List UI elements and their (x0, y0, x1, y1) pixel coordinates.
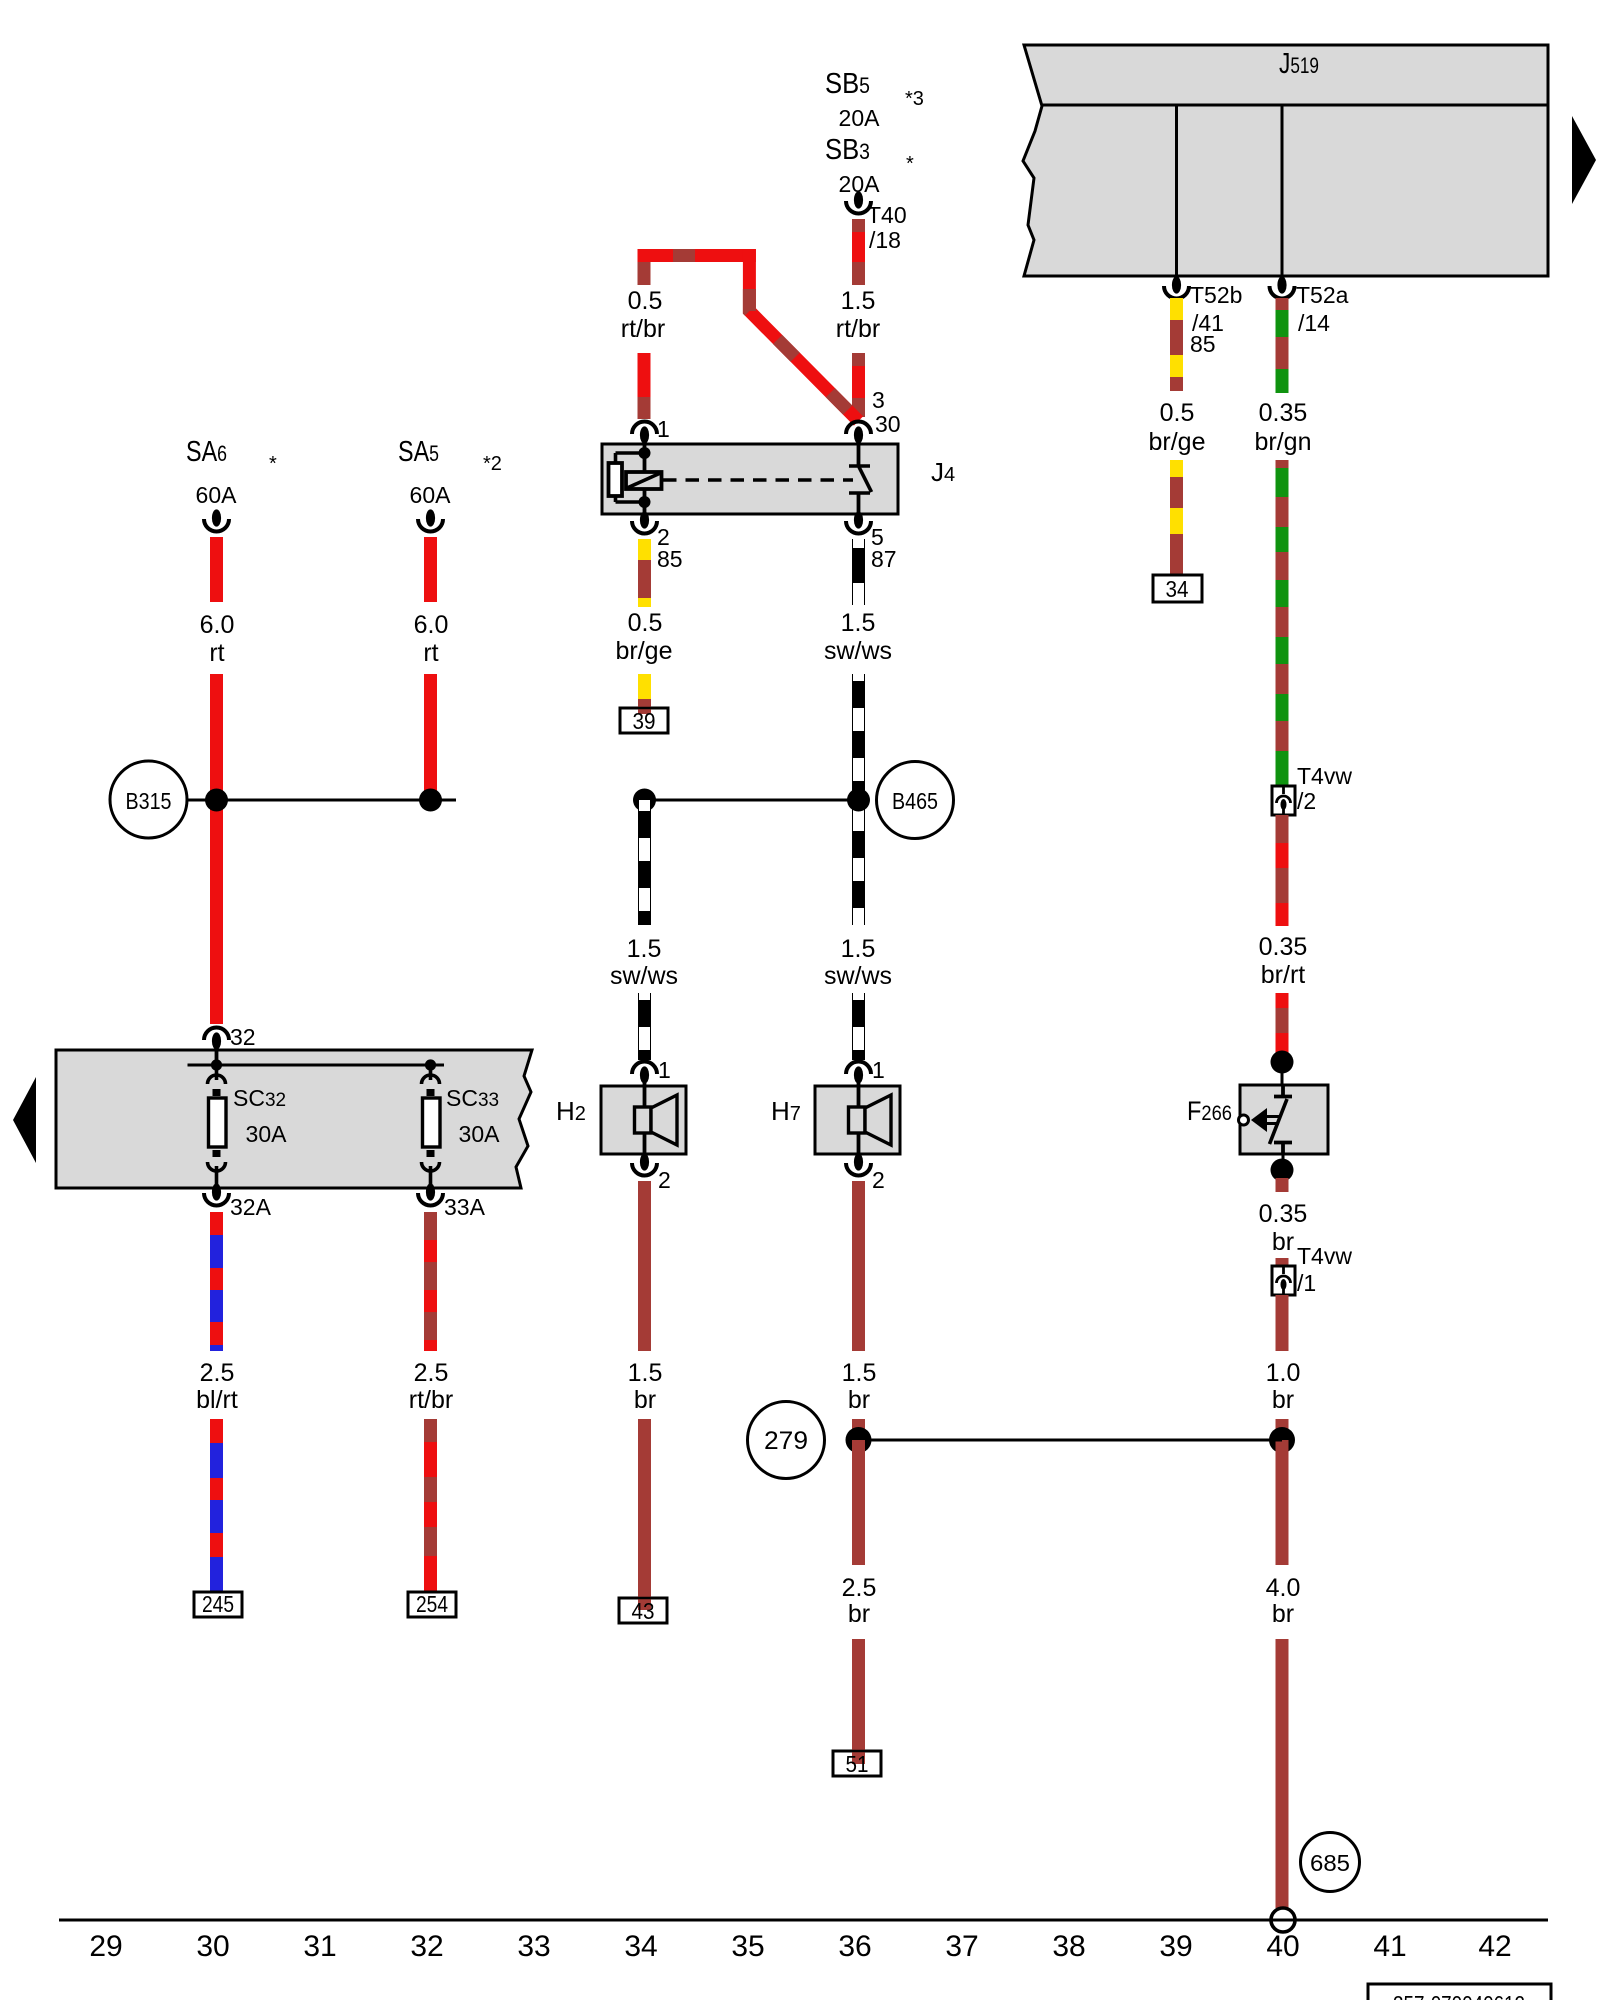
svg-text:SA6: SA6 (186, 436, 227, 468)
svg-text:85: 85 (657, 546, 683, 572)
J4 pin 2 connector (632, 511, 683, 572)
bus bar inside SC box (188, 1059, 445, 1070)
svg-text:30: 30 (196, 1930, 229, 1963)
svg-text:/2: /2 (1297, 788, 1316, 814)
ground 254 (408, 1591, 456, 1617)
svg-text:*2: *2 (483, 453, 502, 475)
wire 0.35 br below F266 (1259, 1178, 1308, 1256)
wire 2.5 rt/br to ground 254 (409, 1212, 453, 1592)
svg-text:32A: 32A (230, 1194, 272, 1220)
wire 2.5 bl/rt to ground 245 (196, 1212, 238, 1592)
svg-text:85: 85 (1190, 331, 1216, 357)
wire 1.0 br (1266, 1295, 1301, 1440)
wire 6.0 rt from SA6 (200, 537, 235, 1024)
svg-text:sw/ws: sw/ws (610, 962, 678, 990)
svg-text:4.0: 4.0 (1266, 1574, 1301, 1602)
svg-text:254: 254 (416, 1591, 448, 1617)
ground 39 (620, 674, 668, 734)
ground 43 (619, 1419, 667, 1624)
svg-text:60A: 60A (196, 482, 238, 508)
wire 0.5 rt/br branch (corner + diagonal) (621, 249, 859, 421)
svg-text:279: 279 (764, 1427, 808, 1455)
ground 245 (194, 1591, 242, 1617)
svg-text:br: br (634, 1386, 656, 1414)
wire link between SA junctions (187, 799, 456, 802)
svg-text:2: 2 (872, 1167, 885, 1193)
connector T40/18 (846, 191, 907, 253)
wire 1.5 rt/br from T40 to J4 pin 30 (836, 219, 880, 417)
current track scale rule (59, 1919, 1548, 1922)
node 279 (748, 1402, 825, 1479)
relay actuating dashed line (663, 478, 853, 482)
svg-text:SA5: SA5 (398, 436, 439, 468)
wire inside J519 to T52b (1175, 105, 1178, 276)
svg-text:40: 40 (1266, 1930, 1299, 1963)
horn H7 pin 2 connector (846, 1153, 885, 1193)
wire 1.5 sw/ws to H2 (610, 800, 678, 1060)
connector T4vw/2 (1272, 763, 1352, 815)
svg-text:2.5: 2.5 (842, 1574, 877, 1602)
svg-text:87: 87 (871, 546, 897, 572)
svg-text:1: 1 (658, 1057, 671, 1083)
svg-text:30A: 30A (246, 1121, 288, 1147)
svg-text:37: 37 (945, 1930, 978, 1963)
fuse SA6 label (186, 436, 277, 508)
connector T52a/14 (1270, 276, 1349, 336)
svg-text:br/rt: br/rt (1261, 961, 1306, 989)
svg-text:357-070040612: 357-070040612 (1393, 1991, 1525, 2000)
svg-text:*: * (906, 153, 914, 175)
svg-text:bl/rt: bl/rt (196, 1386, 238, 1414)
svg-text:32: 32 (410, 1930, 443, 1963)
wire 6.0 rt from SA5 (414, 537, 449, 800)
svg-text:685: 685 (1310, 1850, 1350, 1876)
svg-text:30: 30 (875, 411, 901, 437)
wire 0.5 br/ge from J4 pin 2 to ground 39 (616, 539, 673, 665)
current track numbers (89, 1930, 1511, 1963)
svg-text:6.0: 6.0 (414, 611, 449, 639)
J4 pin 1 connector (632, 416, 670, 454)
svg-text:J519: J519 (1279, 48, 1319, 80)
svg-text:38: 38 (1052, 1930, 1085, 1963)
svg-text:sw/ws: sw/ws (824, 962, 892, 990)
svg-text:6.0: 6.0 (200, 611, 235, 639)
svg-text:34: 34 (1166, 576, 1189, 602)
node B465 (877, 762, 954, 839)
svg-text:2.5: 2.5 (200, 1359, 235, 1387)
svg-text:29: 29 (89, 1930, 122, 1963)
wire 0.35 br/gn from T52a (1255, 298, 1312, 786)
junction node below F266 (1282, 1154, 1285, 1170)
svg-text:0.5: 0.5 (628, 609, 663, 637)
wire inside J519 to T52a (1281, 105, 1284, 276)
svg-text:/18: /18 (869, 227, 901, 253)
svg-text:br: br (1272, 1600, 1294, 1628)
svg-text:sw/ws: sw/ws (824, 637, 892, 665)
svg-text:36: 36 (838, 1930, 871, 1963)
svg-text:B315: B315 (126, 788, 172, 814)
svg-text:1.5: 1.5 (841, 287, 876, 315)
relay switch contact inside J4 (849, 466, 872, 520)
svg-text:1.0: 1.0 (1266, 1359, 1301, 1387)
wire 2.5 br to ground 51 (842, 1440, 877, 1628)
horn H2 pin 1 connector (632, 1057, 671, 1107)
node 685 (1301, 1833, 1360, 1892)
wire 0.5 br/ge from T52b (1149, 298, 1206, 575)
svg-text:30A: 30A (459, 1121, 501, 1147)
svg-text:br: br (1272, 1386, 1294, 1414)
svg-text:*: * (269, 453, 277, 475)
svg-text:br/ge: br/ge (616, 637, 673, 665)
wire 4.0 br to ground (1266, 1440, 1301, 1908)
svg-text:20A: 20A (839, 105, 881, 131)
horn H7 box (815, 1086, 900, 1162)
svg-text:br: br (1272, 1228, 1294, 1256)
junction node 279-right (1269, 1427, 1295, 1453)
fuse SC32 (208, 1065, 288, 1192)
svg-text:SB3: SB3 (825, 134, 870, 166)
connector T4vw/1 (1272, 1243, 1352, 1296)
horn H2 box (601, 1086, 686, 1162)
relay J4 box (602, 444, 898, 514)
junction node B465-right (847, 789, 870, 812)
ground 51 (833, 1639, 881, 1777)
svg-text:0.5: 0.5 (628, 287, 663, 315)
junction node B315-left (205, 789, 228, 812)
svg-text:0.5: 0.5 (1160, 399, 1195, 427)
svg-text:1.5: 1.5 (841, 609, 876, 637)
connector T52b/41 (1164, 276, 1242, 357)
junction node B315-right (419, 789, 442, 812)
svg-text:B465: B465 (892, 788, 938, 814)
connector under SA6 (204, 509, 229, 531)
svg-text:rt: rt (423, 639, 438, 667)
svg-text:2.5: 2.5 (414, 1359, 449, 1387)
svg-text:T4vw: T4vw (1297, 1243, 1352, 1269)
relay coil and resistor inside J4 (609, 447, 662, 520)
svg-text:1.5: 1.5 (627, 935, 662, 963)
svg-text:31: 31 (303, 1930, 336, 1963)
diagram number box (1368, 1984, 1551, 2000)
junction node 279 (846, 1427, 872, 1453)
svg-text:2: 2 (658, 1167, 671, 1193)
ground terminal open circle (1271, 1908, 1295, 1932)
svg-text:br: br (848, 1386, 870, 1414)
svg-text:43: 43 (632, 1598, 655, 1624)
svg-text:rt/br: rt/br (409, 1386, 453, 1414)
svg-text:1.5: 1.5 (842, 1359, 877, 1387)
continuation arrow right (1572, 116, 1596, 204)
svg-text:rt/br: rt/br (836, 315, 880, 343)
svg-text:39: 39 (633, 708, 656, 734)
svg-text:35: 35 (731, 1930, 764, 1963)
J4 pin 5 connector (846, 511, 897, 572)
wire link 279 junction to F266 branch (859, 1439, 1283, 1442)
connector 33A (418, 1183, 486, 1220)
svg-text:1.5: 1.5 (841, 935, 876, 963)
horn H2 pin 2 connector (632, 1153, 671, 1193)
svg-text:33: 33 (517, 1930, 550, 1963)
svg-text:br/gn: br/gn (1255, 428, 1312, 456)
junction node B465-left (633, 789, 656, 812)
horn H7 pin 1 connector (846, 1057, 885, 1107)
svg-text:32: 32 (230, 1024, 256, 1050)
svg-text:3: 3 (872, 387, 885, 413)
svg-text:br: br (848, 1600, 870, 1628)
fuse SB3 label (825, 134, 914, 197)
svg-text:34: 34 (624, 1930, 657, 1963)
J519 onboard supply control unit box (1023, 45, 1548, 276)
switch F266 (1239, 1085, 1329, 1154)
svg-text:1: 1 (657, 416, 670, 442)
svg-text:1.5: 1.5 (628, 1359, 663, 1387)
wire 1.5 br from H2 to ground 43 (628, 1181, 663, 1414)
svg-text:39: 39 (1159, 1930, 1192, 1963)
wire 1.5 br from H7 (842, 1181, 877, 1440)
fuse box SC (S) (56, 1050, 532, 1188)
svg-text:rt/br: rt/br (621, 315, 665, 343)
svg-text:br/ge: br/ge (1149, 428, 1206, 456)
continuation arrow left (13, 1077, 36, 1163)
fuse SC33 (422, 1065, 501, 1192)
svg-text:/14: /14 (1298, 310, 1330, 336)
svg-text:42: 42 (1478, 1930, 1511, 1963)
svg-text:T40: T40 (867, 202, 907, 228)
wire link between sw/ws junctions (645, 799, 859, 802)
ground 34 (1153, 575, 1202, 602)
svg-text:rt: rt (209, 639, 224, 667)
J4 pin 30 connector (846, 387, 901, 465)
wire 1.5 sw/ws from J4 pin 5 (824, 539, 892, 1060)
svg-text:/1: /1 (1297, 1270, 1316, 1296)
svg-text:T52b: T52b (1190, 282, 1242, 308)
svg-text:*3: *3 (905, 88, 924, 110)
svg-text:T52a: T52a (1296, 282, 1349, 308)
connector 32A (204, 1183, 272, 1220)
svg-text:41: 41 (1373, 1930, 1406, 1963)
svg-text:0.35: 0.35 (1259, 399, 1308, 427)
connector 32 on SC box (204, 1024, 256, 1065)
svg-text:51: 51 (846, 1751, 869, 1777)
svg-text:60A: 60A (410, 482, 452, 508)
junction node above F266 (1271, 1051, 1294, 1074)
svg-text:0.35: 0.35 (1259, 933, 1308, 961)
node B315 (110, 761, 187, 838)
svg-text:SB5: SB5 (825, 68, 870, 100)
connector under SA5 (418, 509, 443, 531)
svg-text:245: 245 (202, 1591, 234, 1617)
fuse SB5 label (825, 68, 924, 131)
svg-text:0.35: 0.35 (1259, 1200, 1308, 1228)
svg-text:T4vw: T4vw (1297, 763, 1352, 789)
fuse SA5 label (398, 436, 502, 508)
wire 0.35 br/rt to F266 (1259, 815, 1308, 1054)
svg-text:33A: 33A (444, 1194, 486, 1220)
svg-text:1: 1 (872, 1057, 885, 1083)
